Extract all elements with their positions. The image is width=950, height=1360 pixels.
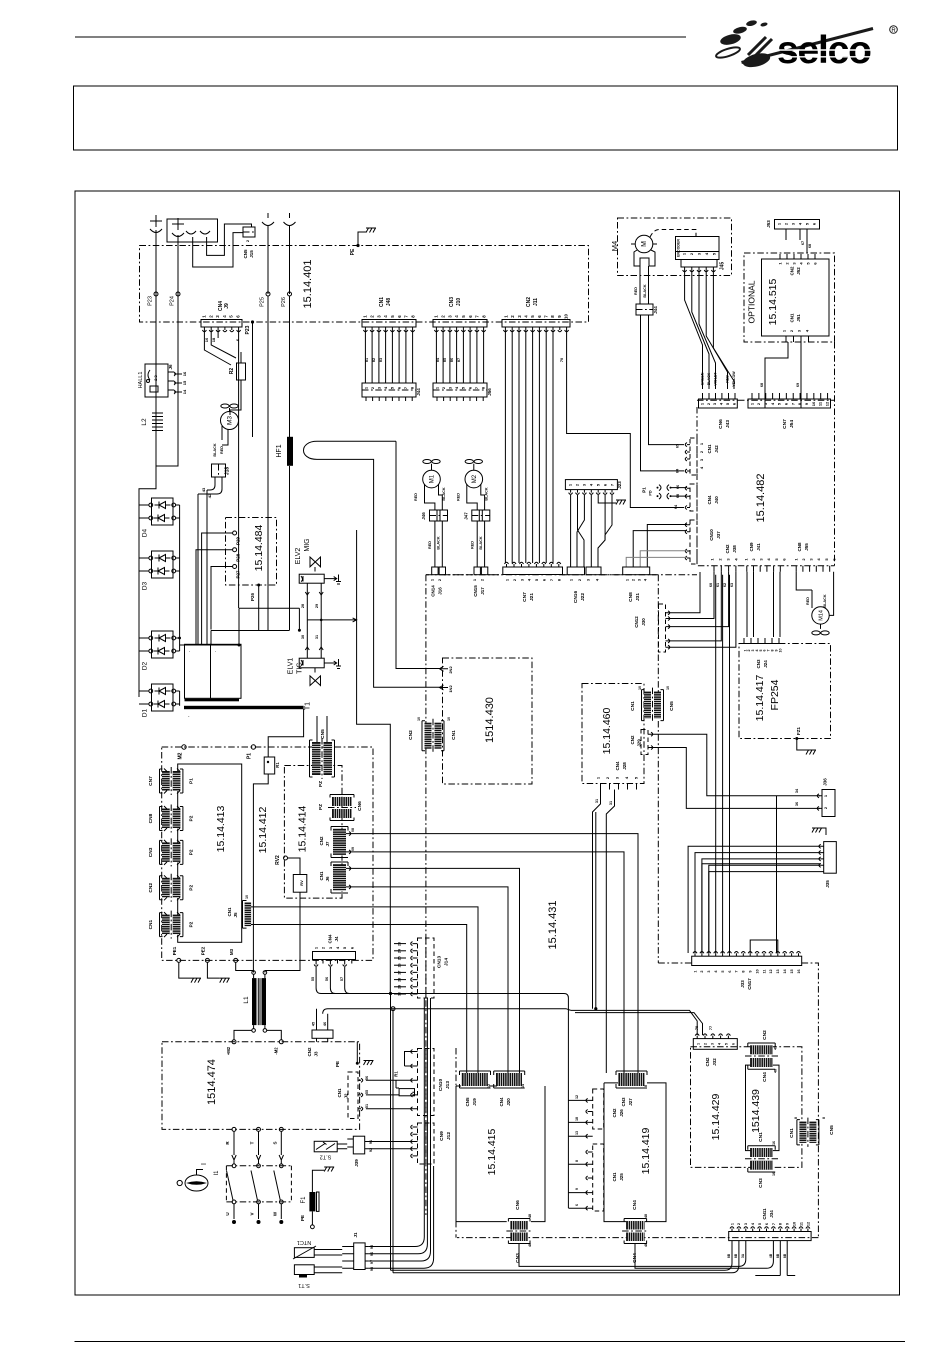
svg-text:CN11: CN11 (762, 1208, 767, 1220)
board 15.14.430 (443, 658, 533, 784)
svg-text:77: 77 (709, 1026, 713, 1030)
connector CN4 J20 (415 top) (496, 1073, 522, 1086)
svg-text:CN6: CN6 (357, 801, 363, 811)
svg-text:P25: P25 (260, 297, 266, 307)
svg-text:J19: J19 (472, 1098, 477, 1106)
svg-text:CN1: CN1 (630, 701, 636, 711)
svg-text:J47: J47 (463, 512, 468, 520)
svg-text:CN8: CN8 (148, 813, 154, 823)
bus to the right (391, 994, 571, 1011)
svg-text:42: 42 (207, 493, 212, 498)
svg-text:CN1: CN1 (227, 907, 232, 916)
svg-text:31: 31 (595, 799, 599, 803)
svg-text:92: 92 (369, 1148, 373, 1152)
svg-text:15.14.413: 15.14.413 (215, 805, 227, 852)
svg-text:95: 95 (370, 1245, 374, 1249)
svg-text:CN1: CN1 (337, 1088, 342, 1097)
svg-text:CN2: CN2 (630, 735, 635, 744)
svg-text:8: 8 (794, 1117, 798, 1119)
svg-text:18: 18 (211, 337, 216, 342)
svg-text:56: 56 (365, 1076, 369, 1080)
board 15.14.414 (284, 766, 342, 899)
connector J44 (M4) (636, 304, 653, 315)
svg-text:51: 51 (365, 1104, 369, 1108)
svg-text:CN7: CN7 (148, 776, 154, 786)
svg-text:15.14.484: 15.14.484 (253, 524, 265, 571)
connector CN3 J27 (419 top) (618, 1073, 644, 1086)
svg-text:1: 1 (730, 1223, 734, 1225)
svg-text:91: 91 (369, 1140, 373, 1144)
svg-text:P2: P2 (189, 885, 195, 891)
board 15.14.431 boundary (426, 574, 697, 576)
svg-text:CN17: CN17 (747, 978, 752, 990)
svg-text:RED: RED (456, 493, 460, 501)
connector CN6 J43 (699, 399, 738, 408)
connector CN9 J12 (418, 1123, 435, 1164)
svg-text:11: 11 (799, 1222, 803, 1226)
svg-text:CN4: CN4 (328, 934, 333, 943)
connector CN7 J21 (503, 567, 563, 575)
svg-text:83: 83 (379, 358, 383, 362)
CN1/CN3 pair (439 bottom link) (750, 1148, 773, 1157)
svg-text:FZ1: FZ1 (796, 727, 801, 735)
svg-text:RED: RED (428, 541, 432, 549)
connector CN1 J25 (419 left) (593, 1144, 604, 1211)
svg-text:12: 12 (575, 1095, 579, 1099)
link CN1/P2 (162, 915, 170, 935)
svg-text:CN3: CN3 (758, 1178, 764, 1188)
svg-text:CN5: CN5 (465, 1097, 470, 1106)
board 15.14.401 (140, 246, 589, 323)
board M4 enclosure (618, 218, 732, 276)
svg-text:48: 48 (528, 1214, 532, 1218)
svg-text:48: 48 (774, 1069, 778, 1073)
terminals P25 P26 arcs (262, 213, 274, 294)
connector CN13 J14 (418, 938, 435, 998)
encoder wires to CN6 J43 (685, 270, 703, 389)
svg-text:RV2: RV2 (275, 855, 281, 865)
svg-text:CN10: CN10 (438, 1079, 444, 1092)
svg-text:15.14.414: 15.14.414 (297, 805, 309, 852)
svg-text:W: W (272, 1211, 277, 1216)
connector J18 (212, 464, 226, 477)
D2/D1 junction wires to T1 area (180, 608, 300, 645)
svg-text:RED: RED (634, 287, 638, 295)
svg-text:16: 16 (797, 969, 801, 973)
svg-text:M4: M4 (610, 241, 619, 251)
svg-text:48: 48 (644, 1243, 648, 1247)
M3 motor + fan (221, 404, 238, 408)
svg-text:BLACK: BLACK (707, 372, 711, 385)
svg-text:J11: J11 (533, 298, 539, 306)
S.T2 thermal sensor (314, 1141, 337, 1152)
svg-text:J12: J12 (446, 1132, 452, 1140)
CN1 J2 wires across to CN10 J13 (366, 1080, 415, 1109)
connector CN16 J22 (567, 567, 584, 575)
svg-text:10: 10 (417, 717, 421, 721)
svg-text:J46: J46 (421, 512, 426, 520)
svg-text:10: 10 (204, 337, 209, 342)
wire P24 (156, 235, 178, 466)
svg-text:J53: J53 (766, 220, 771, 228)
J51 wires down to CN7 J54 (765, 342, 801, 408)
svg-text:CN5: CN5 (829, 1125, 835, 1135)
CN1 J5 connector (245, 903, 252, 927)
svg-text:BLACK: BLACK (213, 443, 217, 457)
svg-text:GREEN: GREEN (701, 372, 705, 385)
wires below CN4 J9 (204, 330, 236, 365)
svg-text:J4: J4 (334, 936, 339, 942)
M4 dashed link to encoder (650, 229, 696, 237)
CN1/CN5 link (460 top right) (644, 692, 651, 719)
svg-text:J23: J23 (617, 481, 622, 489)
svg-text:8B: 8B (783, 1253, 787, 1258)
svg-text:PE2: PE2 (201, 946, 206, 955)
svg-text:J6: J6 (325, 876, 330, 882)
svg-text:5: 5 (758, 1223, 762, 1225)
svg-text:PE: PE (335, 1061, 340, 1067)
svg-text:J45: J45 (720, 262, 726, 271)
big bus verticals (391, 994, 394, 1273)
connector CN3 J24 (417 top) (743, 643, 781, 645)
svg-text:CN4: CN4 (632, 1200, 638, 1210)
svg-text:70: 70 (560, 358, 564, 362)
svg-text:48: 48 (644, 1214, 648, 1218)
svg-text:55: 55 (365, 1090, 369, 1094)
CN2 J38 wires down to CN12 J30 (668, 572, 736, 648)
svg-text:J30: J30 (641, 618, 646, 626)
CN2 J11 wire bundle down to CN7 J21 (504, 330, 506, 563)
svg-text:1514.430: 1514.430 (484, 697, 496, 743)
svg-text:MIG: MIG (304, 538, 311, 551)
link CN2/P2 (162, 878, 170, 898)
M14 fan motor (796, 572, 833, 616)
svg-text:CN1: CN1 (379, 297, 385, 307)
svg-text:14: 14 (521, 1084, 525, 1088)
svg-text:8: 8 (742, 970, 746, 972)
svg-text:6: 6 (765, 1223, 769, 1225)
svg-text:CN2: CN2 (307, 1047, 312, 1056)
svg-text:RED: RED (806, 597, 810, 605)
svg-text:J13: J13 (445, 1081, 451, 1089)
bus diagonal to CN2 J32 (571, 1010, 703, 1035)
svg-text:16: 16 (772, 1172, 776, 1176)
svg-text:S: S (272, 1141, 277, 1144)
svg-text:M2: M2 (178, 752, 184, 759)
474 internals: CN2 J3 (317, 1009, 328, 1030)
svg-text:T1: T1 (305, 702, 312, 710)
svg-text:R1: R1 (394, 1071, 399, 1077)
svg-text:2 3: 2 3 (153, 374, 158, 380)
svg-text:FP254: FP254 (769, 679, 781, 710)
svg-text:15.14.431: 15.14.431 (547, 901, 559, 950)
svg-text:J10: J10 (456, 298, 462, 307)
svg-text:YELLOW: YELLOW (732, 371, 736, 387)
svg-text:9: 9 (786, 1223, 790, 1225)
svg-text:CN3: CN3 (621, 1097, 626, 1106)
svg-text:55: 55 (311, 977, 315, 981)
svg-text:4B: 4B (769, 1253, 773, 1258)
board 15.14.474 (162, 1042, 360, 1130)
ELV junction bus (307, 618, 356, 622)
HALL1 (145, 364, 168, 397)
svg-text:P26: P26 (250, 593, 255, 602)
svg-text:CN7: CN7 (522, 592, 528, 602)
svg-text:M2: M2 (472, 474, 478, 483)
connector CN17 J33 (692, 956, 802, 965)
svg-text:U: U (225, 1212, 230, 1215)
svg-text:M1: M1 (430, 474, 436, 483)
J1 wires to risers (368, 998, 434, 1268)
svg-text:J2: J2 (344, 1093, 349, 1099)
430 inputs (440, 666, 449, 671)
svg-text:CN5: CN5 (669, 701, 675, 711)
encoder J45 (676, 237, 720, 260)
svg-text:RED: RED (726, 375, 730, 383)
svg-text:15.14.515: 15.14.515 (767, 278, 779, 325)
svg-text:M3: M3 (229, 948, 234, 955)
svg-text:J52: J52 (796, 267, 801, 275)
svg-text:BLACK: BLACK (479, 536, 483, 550)
ELV2 wires down (307, 583, 321, 620)
svg-text:8: 8 (822, 1117, 826, 1119)
svg-text:PZ: PZ (318, 781, 324, 787)
terminal + left (150, 215, 162, 233)
svg-text:CN1: CN1 (451, 730, 457, 740)
J36 connector (822, 790, 835, 817)
svg-text:CN12: CN12 (634, 616, 639, 628)
svg-text:CN2: CN2 (526, 297, 532, 307)
svg-text:6: 6 (731, 1043, 735, 1045)
svg-text:BLACK: BLACK (484, 487, 488, 501)
svg-text:P1: P1 (642, 487, 647, 493)
svg-text:61: 61 (716, 583, 720, 587)
svg-text:13: 13 (575, 1131, 579, 1135)
horizontal buses into vertical pair (323, 994, 393, 1014)
svg-text:J29: J29 (637, 739, 642, 747)
connector CN8 J31 (623, 567, 650, 575)
svg-text:12: 12 (806, 1222, 810, 1226)
svg-text:15.14.415: 15.14.415 (486, 1128, 498, 1175)
svg-text:28: 28 (398, 978, 402, 982)
svg-text:3A: 3A (741, 1253, 745, 1258)
connector J44 lower (364, 330, 366, 383)
J23 wires down to CN16 J22 (571, 495, 612, 567)
svg-text:85: 85 (443, 358, 447, 362)
svg-text:98: 98 (370, 1267, 374, 1271)
svg-text:J33: J33 (740, 980, 745, 988)
svg-text:J17: J17 (480, 587, 485, 595)
connector J39 (353, 1136, 364, 1154)
svg-text:PE: PE (350, 248, 356, 255)
wire P23 (139, 230, 156, 497)
svg-text:4: 4 (717, 1043, 721, 1045)
svg-text:15.14.419: 15.14.419 (640, 1127, 652, 1174)
svg-text:P29: P29 (236, 537, 241, 546)
svg-text:87: 87 (457, 358, 461, 362)
svg-text:1N2: 1N2 (448, 685, 453, 693)
svg-text:8: 8 (575, 1160, 579, 1162)
HF1 loop to 430 (304, 441, 441, 687)
CN12 J30 wires going right/up (668, 572, 700, 613)
svg-text:1: 1 (693, 970, 697, 972)
svg-text:09: 09 (351, 847, 355, 851)
svg-text:10: 10 (564, 314, 569, 319)
svg-text:D3: D3 (142, 581, 149, 590)
CN4 J4 wires to bus (316, 967, 350, 994)
dash-dot connector line y=574.7 (426, 574, 658, 576)
svg-text:D1: D1 (142, 708, 149, 717)
svg-text:J56: J56 (487, 388, 492, 396)
svg-text:J26: J26 (619, 1109, 624, 1117)
svg-text:I: I (201, 1163, 208, 1165)
svg-text:68: 68 (676, 494, 680, 498)
CN4/CN4 link pair (419 bottom) (626, 1221, 645, 1230)
svg-text:CN6: CN6 (718, 419, 724, 429)
svg-text:16: 16 (772, 1141, 776, 1145)
svg-text:1514.474: 1514.474 (206, 1059, 218, 1105)
thick output bus (211, 630, 290, 632)
svg-text:CN2: CN2 (319, 836, 324, 845)
svg-text:68: 68 (808, 244, 812, 248)
motor M4 (635, 235, 653, 253)
svg-text:43: 43 (201, 487, 206, 492)
svg-text:J5: J5 (233, 912, 238, 918)
svg-text:CN14: CN14 (431, 585, 436, 597)
board 15.14.415 (455, 1048, 457, 1238)
main schematic frame (75, 191, 900, 1295)
I1 knob (185, 1175, 208, 1191)
CN2/CN1 link (430 left) (425, 723, 432, 749)
T1 winding boxes (185, 644, 211, 698)
svg-text:P1: P1 (189, 778, 195, 784)
svg-text:CN2: CN2 (148, 883, 154, 893)
svg-text:8: 8 (779, 1223, 783, 1225)
svg-text:12: 12 (824, 401, 829, 406)
svg-text:L2: L2 (141, 418, 148, 426)
svg-text:CN9: CN9 (439, 1131, 445, 1141)
svg-text:J22: J22 (580, 593, 586, 601)
M3 wires to J18 (222, 426, 228, 445)
svg-text:10: 10 (778, 649, 782, 653)
svg-text:11: 11 (762, 969, 766, 973)
CN11 J34 wires down to bundle (391, 1241, 739, 1273)
svg-text:M3: M3 (227, 416, 234, 425)
fan M1 (423, 460, 440, 464)
svg-text:BLACK: BLACK (823, 594, 827, 608)
CN2 pair (439 top link) (750, 1045, 773, 1054)
svg-text:HF1: HF1 (276, 444, 283, 457)
svg-text:RED: RED (414, 493, 418, 501)
svg-text:J38: J38 (732, 545, 737, 553)
svg-text:14: 14 (182, 389, 187, 394)
svg-text:CN1: CN1 (758, 1132, 764, 1142)
svg-text:2: 2 (700, 970, 704, 972)
svg-text:CN2: CN2 (762, 1030, 768, 1040)
svg-text:BLACK: BLACK (437, 536, 441, 550)
svg-text:J7: J7 (325, 841, 330, 847)
connector J1 (354, 1243, 365, 1270)
board 15.14.484 (226, 518, 277, 586)
connector CN7 J54 (748, 399, 831, 408)
svg-text:J44: J44 (653, 306, 658, 314)
svg-text:45: 45 (312, 1022, 316, 1026)
svg-text:5: 5 (724, 1043, 728, 1045)
svg-text:7: 7 (735, 970, 739, 972)
svg-text:68: 68 (760, 383, 764, 387)
svg-text:57: 57 (340, 977, 344, 981)
svg-text:J36: J36 (823, 778, 828, 786)
svg-text:NTC1: NTC1 (297, 1239, 311, 1245)
CN17 J33 wires up (702, 864, 824, 954)
diode module D3 (139, 551, 180, 578)
svg-text:CN15: CN15 (473, 585, 478, 597)
svg-text:J16: J16 (438, 587, 443, 595)
svg-text:ELV1: ELV1 (288, 658, 295, 675)
connector CN11 J34 (729, 1232, 811, 1241)
svg-text:J32: J32 (712, 1058, 717, 1066)
svg-text:M14: M14 (819, 610, 825, 621)
svg-text:J31: J31 (635, 593, 641, 601)
M4 wires RED/BLACK to J44 (640, 266, 649, 304)
board 15.14.412 outer (162, 747, 373, 960)
diode module D4 (139, 498, 180, 525)
svg-text:12: 12 (769, 969, 773, 973)
svg-text:CN3: CN3 (756, 659, 761, 668)
svg-text:CN10: CN10 (709, 529, 714, 541)
svg-text:10: 10 (245, 895, 249, 899)
svg-text:CN16: CN16 (573, 591, 579, 604)
svg-text:J41: J41 (756, 543, 761, 551)
svg-text:46: 46 (323, 1022, 327, 1026)
svg-text:OPTIONAL: OPTIONAL (747, 280, 757, 323)
connector CN2 J26 (419 left) (593, 1089, 604, 1129)
svg-text:96: 96 (370, 1252, 374, 1256)
link CN8/P2 (162, 809, 170, 829)
svg-text:24: 24 (398, 949, 402, 953)
svg-text:12: 12 (487, 1084, 491, 1088)
svg-text:CN2: CN2 (408, 730, 414, 740)
svg-text:CN5: CN5 (320, 729, 326, 739)
P1 node (251, 745, 255, 749)
svg-text:CN1: CN1 (790, 313, 795, 322)
P26 wire from 484 (257, 584, 260, 587)
svg-text:10: 10 (811, 401, 816, 406)
svg-text:6: 6 (575, 1204, 579, 1206)
svg-text:P2: P2 (189, 849, 195, 855)
link CN3/P2 (162, 842, 170, 862)
connector CN2 J32 (429 top) (693, 1039, 737, 1050)
svg-text:J24: J24 (763, 660, 768, 668)
svg-text:13: 13 (776, 969, 780, 973)
FZ1 (795, 737, 798, 740)
terminal box with + and sockets (167, 219, 218, 242)
svg-text:CN5: CN5 (243, 249, 248, 258)
svg-text:J3: J3 (314, 1051, 319, 1057)
svg-text:08: 08 (351, 828, 355, 832)
J35 connector (824, 842, 837, 874)
CN6 link (414 right) (332, 797, 352, 806)
svg-text:CN2: CN2 (612, 1108, 617, 1117)
board 15.14.419 (604, 1083, 666, 1222)
svg-text:15.14.417: 15.14.417 (754, 674, 766, 721)
svg-text:8B: 8B (734, 1253, 738, 1258)
svg-text:15.14.401: 15.14.401 (302, 260, 314, 309)
I1 switch bracket (226, 1166, 291, 1202)
connector CN1 J2 (348, 1072, 358, 1119)
svg-text:6: 6 (728, 970, 732, 972)
svg-text:CN1: CN1 (319, 871, 324, 880)
